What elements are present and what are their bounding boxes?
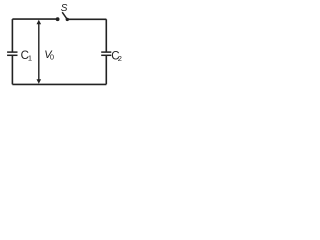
svg-text:S: S	[61, 3, 68, 14]
wire bottom rail	[12, 83, 106, 85]
wire left rail upper	[11, 19, 13, 52]
capacitor C2	[101, 52, 111, 55]
capacitor C1	[7, 52, 17, 55]
node switch left contact	[56, 17, 60, 21]
V0 arrowhead up	[37, 20, 42, 25]
switch S blade	[62, 12, 66, 18]
svg-text:2: 2	[118, 54, 122, 63]
V0 measurement arrow line	[38, 23, 40, 81]
node switch right contact	[66, 18, 69, 21]
wire left rail lower	[11, 56, 13, 85]
svg-text:0: 0	[50, 53, 54, 62]
wire right rail lower	[105, 56, 107, 85]
wire right rail upper	[105, 19, 107, 52]
svg-text:1: 1	[28, 54, 32, 63]
wire top-right rail	[67, 18, 106, 20]
V0 arrowhead down	[37, 79, 42, 84]
wire top-left rail	[12, 18, 56, 20]
